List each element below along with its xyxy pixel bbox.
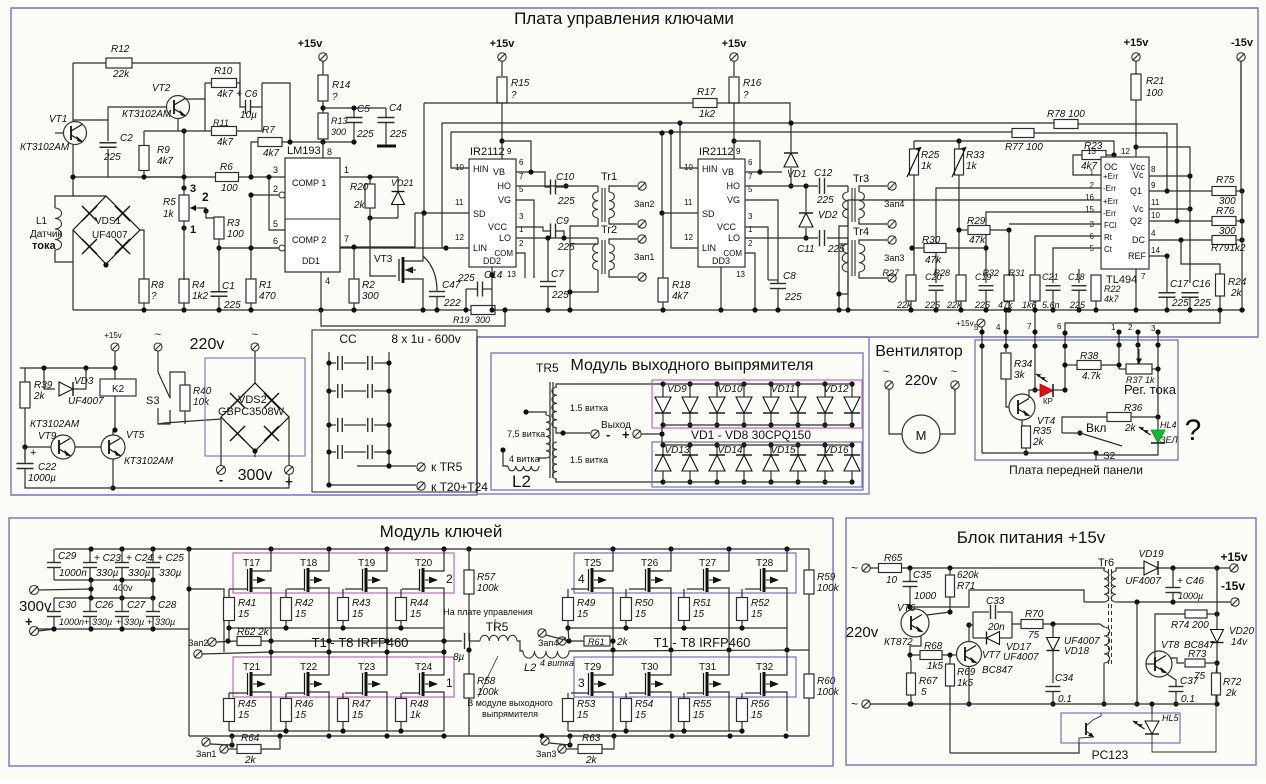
svg-text:HL4: HL4 <box>1160 420 1177 430</box>
resistor R60 <box>804 674 814 698</box>
svg-text:R45: R45 <box>238 699 257 710</box>
resistor R64 <box>237 745 261 754</box>
wire DD3 HIN <box>680 123 698 168</box>
resistor R42 <box>281 598 292 621</box>
svg-text:R19: R19 <box>453 315 470 325</box>
capacitor C18 <box>1072 285 1087 287</box>
wire LED node up to R38 <box>1065 365 1077 390</box>
svg-text:T20: T20 <box>415 558 433 569</box>
svg-text:2k: 2k <box>585 755 598 766</box>
wire VT7 collector <box>968 625 970 642</box>
stubs 1 2 3 <box>1118 332 1120 369</box>
svg-text:2: 2 <box>446 572 453 586</box>
svg-text:225: 225 <box>551 290 569 301</box>
svg-text:+ C46: + C46 <box>1177 576 1204 587</box>
svg-text:1k2: 1k2 <box>699 109 716 120</box>
capacitor C19 <box>979 285 994 287</box>
svg-text:VB: VB <box>493 167 505 177</box>
wire VB to C10 <box>516 172 550 187</box>
resistor R36 <box>1107 413 1131 422</box>
svg-text:4: 4 <box>325 276 330 286</box>
resistor R74 <box>1185 610 1207 618</box>
svg-text:R58: R58 <box>477 676 496 687</box>
capacitor C21 <box>1046 285 1061 287</box>
rect diode top row 1 <box>662 384 664 397</box>
wire TR5 top to diode box <box>556 384 662 387</box>
wire DD2 LIN <box>442 123 469 248</box>
svg-text:VD10: VD10 <box>717 384 742 395</box>
terminal Зап4 <box>888 182 896 190</box>
svg-text:R68: R68 <box>924 641 943 652</box>
svg-text:7: 7 <box>344 234 349 244</box>
svg-text:13: 13 <box>1087 147 1096 156</box>
rect diode bottom row 2 <box>689 445 691 455</box>
svg-text:R18: R18 <box>672 280 691 291</box>
svg-text:R42: R42 <box>295 598 314 609</box>
resistor R40 <box>180 385 190 411</box>
svg-text:15: 15 <box>751 609 763 620</box>
TR5 secondary bottom winding 1.5 витка <box>552 442 557 479</box>
wire VCC node DD3 <box>745 227 768 280</box>
wire COM DD3 <box>745 253 755 310</box>
svg-text:15: 15 <box>410 609 422 620</box>
svg-text:1k5: 1k5 <box>957 678 974 689</box>
wire CC to TR5 terminal <box>357 465 416 467</box>
wire DD3 pin9 <box>734 141 760 165</box>
svg-text:выпрямителя: выпрямителя <box>482 709 538 719</box>
stub wires into front panel <box>981 327 983 453</box>
svg-text:C11: C11 <box>797 244 815 255</box>
svg-text:T22: T22 <box>300 662 318 673</box>
svg-text:T18: T18 <box>300 558 318 569</box>
resistor R56 <box>737 699 748 722</box>
svg-text:~: ~ <box>951 366 957 378</box>
resistor R6 <box>216 173 239 182</box>
wire 6 link to rail <box>1065 310 1220 390</box>
resistor R7 <box>258 138 282 147</box>
svg-text:225: 225 <box>784 292 802 303</box>
svg-text:R73: R73 <box>1188 649 1207 660</box>
svg-text:4: 4 <box>996 323 1001 332</box>
main rail key module <box>189 735 809 737</box>
wire center tap down <box>1136 602 1138 704</box>
svg-text:C12: C12 <box>814 168 833 179</box>
bus lines top middle <box>424 102 693 104</box>
svg-text:1k: 1k <box>921 161 933 172</box>
wire Tr6 secondary top to VD19 <box>1116 568 1144 571</box>
svg-text:CC: CC <box>339 332 357 346</box>
wire Tr6 primary top <box>1103 568 1105 571</box>
rect diode top row 4 <box>743 384 745 397</box>
resistor R15 <box>497 77 507 103</box>
svg-text:VT6: VT6 <box>897 603 916 614</box>
svg-text:T32: T32 <box>756 662 774 673</box>
capacitor C33 <box>990 605 992 619</box>
svg-text:Tr2: Tr2 <box>601 224 617 236</box>
svg-text:1k2: 1k2 <box>192 291 209 302</box>
wire VCC node <box>516 227 550 231</box>
svg-text:тока: тока <box>32 240 56 252</box>
wire R10/R11 left vertical <box>204 83 206 131</box>
svg-text:R63: R63 <box>582 733 601 744</box>
svg-text:C18: C18 <box>1068 272 1085 282</box>
svg-text:Датчик: Датчик <box>30 229 62 240</box>
top bus / bottom bus wires diode box <box>662 383 852 385</box>
svg-text:3: 3 <box>1151 324 1156 333</box>
svg-text:VT7: VT7 <box>982 650 1001 661</box>
svg-text:Зап2: Зап2 <box>634 199 654 209</box>
resistor R44 <box>396 598 407 621</box>
svg-text:2k: 2k <box>1225 688 1238 699</box>
resistor R63 <box>578 745 602 754</box>
resistor R59 <box>804 570 814 594</box>
svg-text:~: ~ <box>851 697 858 711</box>
svg-text:SD: SD <box>473 209 486 219</box>
wire fan leads <box>889 389 902 434</box>
svg-text:9: 9 <box>736 147 741 156</box>
capacitor C16 <box>1182 292 1199 294</box>
capacitor C12 <box>819 178 821 194</box>
wire bridge left terminal <box>210 417 221 464</box>
svg-text:OC: OC <box>1104 162 1118 172</box>
svg-text:+15v: +15v <box>1124 37 1150 49</box>
wire bridge bottom <box>254 451 256 457</box>
svg-text:+15v: +15v <box>490 38 516 50</box>
svg-text:220v: 220v <box>846 624 879 641</box>
svg-text:HIN: HIN <box>702 164 718 174</box>
svg-text:R1: R1 <box>259 280 272 291</box>
vertical link x189 <box>188 549 190 736</box>
svg-text:к Т20+Т24: к Т20+Т24 <box>431 480 488 494</box>
resistor R21 <box>1131 74 1141 100</box>
svg-text:?: ? <box>151 291 157 302</box>
svg-text:VT2: VT2 <box>152 83 171 94</box>
wire L2 to right columns <box>569 650 809 651</box>
wire Tr3/4 left common <box>839 218 848 244</box>
wire VT1 base to C2 node <box>55 132 64 134</box>
resistor R28 <box>956 275 966 301</box>
svg-text:+15v: +15v <box>722 38 748 50</box>
svg-text:R31: R31 <box>1008 268 1025 278</box>
svg-text:R48: R48 <box>410 699 429 710</box>
svg-text:C2: C2 <box>120 133 133 144</box>
resistor R55 <box>679 699 690 722</box>
svg-text:?: ? <box>511 90 517 101</box>
svg-text:VG: VG <box>498 195 511 205</box>
svg-text:VT8: VT8 <box>1161 640 1180 651</box>
svg-text:+: + <box>116 617 121 627</box>
svg-text:3: 3 <box>273 165 278 175</box>
box: Модуль выходного выпрямителя outer <box>477 337 869 494</box>
svg-text:15: 15 <box>693 609 705 620</box>
resistor R31 <box>1030 275 1040 301</box>
svg-text:VD11: VD11 <box>771 384 795 395</box>
svg-text:4: 4 <box>1151 229 1156 238</box>
wire y141 to R23 <box>914 141 1114 155</box>
svg-text:300v: 300v <box>238 467 273 484</box>
svg-text:400v: 400v <box>113 583 133 593</box>
diode VD2 <box>799 213 813 227</box>
svg-text:R46: R46 <box>295 699 314 710</box>
svg-text:R15: R15 <box>511 78 530 89</box>
right rail -15v <box>1240 61 1242 191</box>
svg-text:+ C6: + C6 <box>236 89 258 100</box>
resistor R2 <box>349 279 359 303</box>
wire pin5 Ct <box>1053 248 1101 283</box>
svg-text:T19: T19 <box>358 558 376 569</box>
bridge VDS1 UF4007 <box>73 195 106 197</box>
svg-text:13: 13 <box>507 270 516 279</box>
svg-text:R51: R51 <box>693 598 711 609</box>
svg-text:HO: HO <box>727 181 741 191</box>
svg-text:Q1: Q1 <box>1130 186 1142 196</box>
resistor R71 <box>946 575 955 597</box>
svg-text:T25: T25 <box>584 558 602 569</box>
wire VB VD1 <box>745 171 782 173</box>
svg-text:11: 11 <box>1151 198 1160 207</box>
transistor VT1 <box>64 122 87 145</box>
svg-text:R24: R24 <box>1228 277 1247 288</box>
svg-text:2: 2 <box>519 239 524 248</box>
svg-text:~: ~ <box>883 366 889 378</box>
svg-text:R43: R43 <box>352 598 371 609</box>
svg-text:R5: R5 <box>163 197 176 208</box>
optotransistor inside PC123 <box>1085 723 1087 735</box>
svg-text:Блок питания +15v: Блок питания +15v <box>957 528 1106 547</box>
wire HO to Tr1 <box>516 185 598 187</box>
svg-text:222: 222 <box>443 298 461 309</box>
svg-text:T26: T26 <box>641 558 659 569</box>
svg-text:2k: 2k <box>244 755 257 766</box>
inductor L2 <box>523 651 569 658</box>
svg-text:C8: C8 <box>783 271 796 282</box>
svg-text:Rt: Rt <box>1104 233 1113 242</box>
bottom rail left section <box>73 309 471 311</box>
wire R74 to VT8 base <box>1146 614 1185 664</box>
resistor R3 <box>214 217 224 239</box>
wire Q1 pin9 to R75 <box>1149 190 1212 192</box>
wire VT4 emitter to R35 <box>1022 420 1026 426</box>
svg-text:R54: R54 <box>635 699 654 710</box>
svg-text:На плате управления: На плате управления <box>443 607 533 617</box>
svg-text:Q2: Q2 <box>1130 216 1142 226</box>
capacitor C5 <box>346 117 363 119</box>
svg-text:Т1 - Т8 IRFP460: Т1 - Т8 IRFP460 <box>312 635 409 650</box>
wire Tr2 bottom left <box>570 270 598 292</box>
svg-text:R11: R11 <box>213 118 229 128</box>
wire pin15 feedback <box>986 212 1101 283</box>
svg-text:11: 11 <box>455 198 464 207</box>
svg-text:R35: R35 <box>1033 426 1052 437</box>
LED red KP <box>1029 390 1040 398</box>
wire comp2 out y247 <box>340 213 415 247</box>
wire S2 pole from R36 node <box>1062 417 1108 433</box>
svg-text:R57: R57 <box>477 572 496 583</box>
svg-text:R56: R56 <box>751 699 770 710</box>
svg-text:225: 225 <box>389 129 407 140</box>
capacitor C8 <box>770 283 786 285</box>
CC cap row 1 <box>329 362 336 364</box>
svg-text:+: + <box>622 427 630 442</box>
svg-text:7,5 витка: 7,5 витка <box>507 429 545 439</box>
svg-text:1: 1 <box>1111 323 1116 332</box>
svg-text:14: 14 <box>1151 246 1160 255</box>
svg-text:3: 3 <box>748 212 753 221</box>
top bus key module <box>55 548 809 550</box>
svg-text:220v: 220v <box>905 372 938 389</box>
svg-text:47k: 47k <box>925 255 942 266</box>
box: Блок питания +15v <box>846 518 1256 765</box>
rect diode top row 8 <box>851 384 853 397</box>
svg-text:R74 200: R74 200 <box>1171 620 1209 631</box>
wire Tr6 primary bottom <box>1084 601 1104 603</box>
box: Плата передней панели <box>975 340 1178 460</box>
svg-text:R65: R65 <box>884 553 903 564</box>
svg-text:100: 100 <box>227 229 244 240</box>
rect diode bottom row 7 <box>824 445 826 455</box>
svg-text:R59: R59 <box>817 572 836 583</box>
svg-text:VT3: VT3 <box>374 254 393 265</box>
svg-text:Vc: Vc <box>1133 170 1144 180</box>
svg-text:3: 3 <box>519 212 524 221</box>
wire DC node to R24 <box>1181 240 1220 274</box>
svg-text:1k: 1k <box>966 161 978 172</box>
svg-text:~: ~ <box>155 329 161 341</box>
svg-text:R27: R27 <box>882 268 900 278</box>
wire HO to C12 <box>745 185 818 187</box>
blue box T25-T28 <box>574 553 796 593</box>
wire LO to Tr2 <box>516 237 598 239</box>
svg-text:R17: R17 <box>697 87 716 98</box>
svg-text:VD1: VD1 <box>787 169 806 180</box>
resistor R34 <box>1001 353 1011 379</box>
wire PC123 left pin to R69 <box>950 743 1079 753</box>
svg-text:VD1 - VD8 30CPQ150: VD1 - VD8 30CPQ150 <box>691 428 811 442</box>
svg-text:R21: R21 <box>1146 76 1164 87</box>
svg-text:S2: S2 <box>1103 451 1116 462</box>
svg-text:225: 225 <box>974 300 991 310</box>
svg-text:R38: R38 <box>1080 351 1099 362</box>
resistor R1 <box>246 279 256 303</box>
svg-text:1000µ: 1000µ <box>1178 591 1203 601</box>
resistor R61 boxed <box>584 636 610 646</box>
svg-text:12: 12 <box>684 233 693 242</box>
sub bus y731 left <box>229 730 444 732</box>
svg-text:-Err: -Err <box>1103 209 1117 218</box>
trimmer R25 <box>910 149 919 175</box>
wire R23 left to pin1 <box>1073 155 1101 175</box>
svg-text:R22: R22 <box>1104 284 1121 294</box>
svg-text:Зап2: Зап2 <box>188 638 208 648</box>
svg-text:R78 100: R78 100 <box>1047 109 1085 120</box>
svg-text:2: 2 <box>748 239 753 248</box>
svg-text:9: 9 <box>507 147 512 156</box>
wire LM193 pin4 bottom <box>320 272 322 310</box>
wire LO to C11 <box>745 237 818 239</box>
svg-text:2k: 2k <box>616 637 629 648</box>
svg-text:PC123: PC123 <box>1092 748 1129 762</box>
svg-text:7: 7 <box>519 172 524 181</box>
blue box T29-T32 <box>574 657 796 697</box>
sub bus y731 right <box>568 730 742 732</box>
svg-text:~: ~ <box>252 329 258 341</box>
svg-text:225: 225 <box>457 273 475 284</box>
terminal plus 300v <box>288 417 290 466</box>
resistor R38 <box>1077 361 1101 370</box>
svg-text:C29: C29 <box>58 551 77 562</box>
vertical link x224 <box>189 589 224 652</box>
svg-text:КТ872: КТ872 <box>884 637 913 648</box>
svg-text:1k: 1k <box>410 710 422 721</box>
svg-text:330µ: 330µ <box>159 568 182 579</box>
box VDS2 <box>205 358 305 456</box>
svg-text:C10: C10 <box>556 172 575 183</box>
svg-text:Зап4: Зап4 <box>538 638 558 648</box>
inductor L2 4 витка <box>508 466 539 471</box>
svg-text:LIN: LIN <box>702 243 716 253</box>
TR5 primary winding 7.5 витка <box>546 415 550 458</box>
svg-text:VT9: VT9 <box>38 431 57 442</box>
svg-text:ЗЕЛ: ЗЕЛ <box>1160 435 1179 445</box>
diode VD1 <box>784 153 798 167</box>
terminal Зап1 <box>638 235 646 243</box>
svg-text:C16: C16 <box>1192 279 1211 290</box>
ground under C4 <box>377 145 396 148</box>
svg-text:9: 9 <box>1151 181 1156 190</box>
CC box <box>312 330 477 492</box>
svg-text:R12: R12 <box>111 44 130 55</box>
svg-text:GBPC3508W: GBPC3508W <box>218 406 285 418</box>
svg-text:C33: C33 <box>986 596 1005 607</box>
svg-text:COMP 1: COMP 1 <box>292 178 326 188</box>
svg-text:R34: R34 <box>1014 359 1033 370</box>
svg-text:15: 15 <box>635 710 647 721</box>
resistor R35 <box>1022 426 1031 448</box>
svg-text:S3: S3 <box>146 395 159 407</box>
svg-text:8µ: 8µ <box>453 652 465 663</box>
transistor VT9 <box>51 435 75 459</box>
IC TL494 <box>1101 157 1149 269</box>
svg-text:75: 75 <box>1028 630 1040 641</box>
wire Q2 pin10 to R76 <box>1149 220 1212 222</box>
svg-text:R69: R69 <box>957 667 976 678</box>
wire DD2 HIN <box>451 132 469 168</box>
wire pin2 feedback <box>936 188 1101 283</box>
svg-text:5: 5 <box>273 219 278 229</box>
svg-text:4k7: 4k7 <box>217 137 234 148</box>
resistor R24 <box>1216 274 1225 296</box>
svg-text:VD13: VD13 <box>664 445 689 456</box>
svg-text:T30: T30 <box>641 662 659 673</box>
wire HL4 down to rail <box>1096 443 1158 455</box>
wire LED cathode node <box>1053 389 1065 391</box>
svg-text:TR5: TR5 <box>536 361 559 375</box>
svg-text:15: 15 <box>295 710 307 721</box>
svg-text:2k: 2k <box>33 391 46 402</box>
svg-text:47k: 47k <box>969 235 986 246</box>
svg-text:C17: C17 <box>1170 279 1189 290</box>
wire K2 top node <box>20 367 115 369</box>
source bus y628 left <box>229 627 444 629</box>
wire DD2 SD <box>423 103 425 213</box>
svg-text:VT1: VT1 <box>49 114 67 125</box>
svg-text:T23: T23 <box>358 662 376 673</box>
rect diode top row 3 <box>716 384 718 397</box>
svg-text:2: 2 <box>1128 323 1133 332</box>
rect diode top row 5 <box>770 384 772 397</box>
svg-text:2: 2 <box>1090 181 1095 190</box>
svg-text:R53: R53 <box>577 699 596 710</box>
